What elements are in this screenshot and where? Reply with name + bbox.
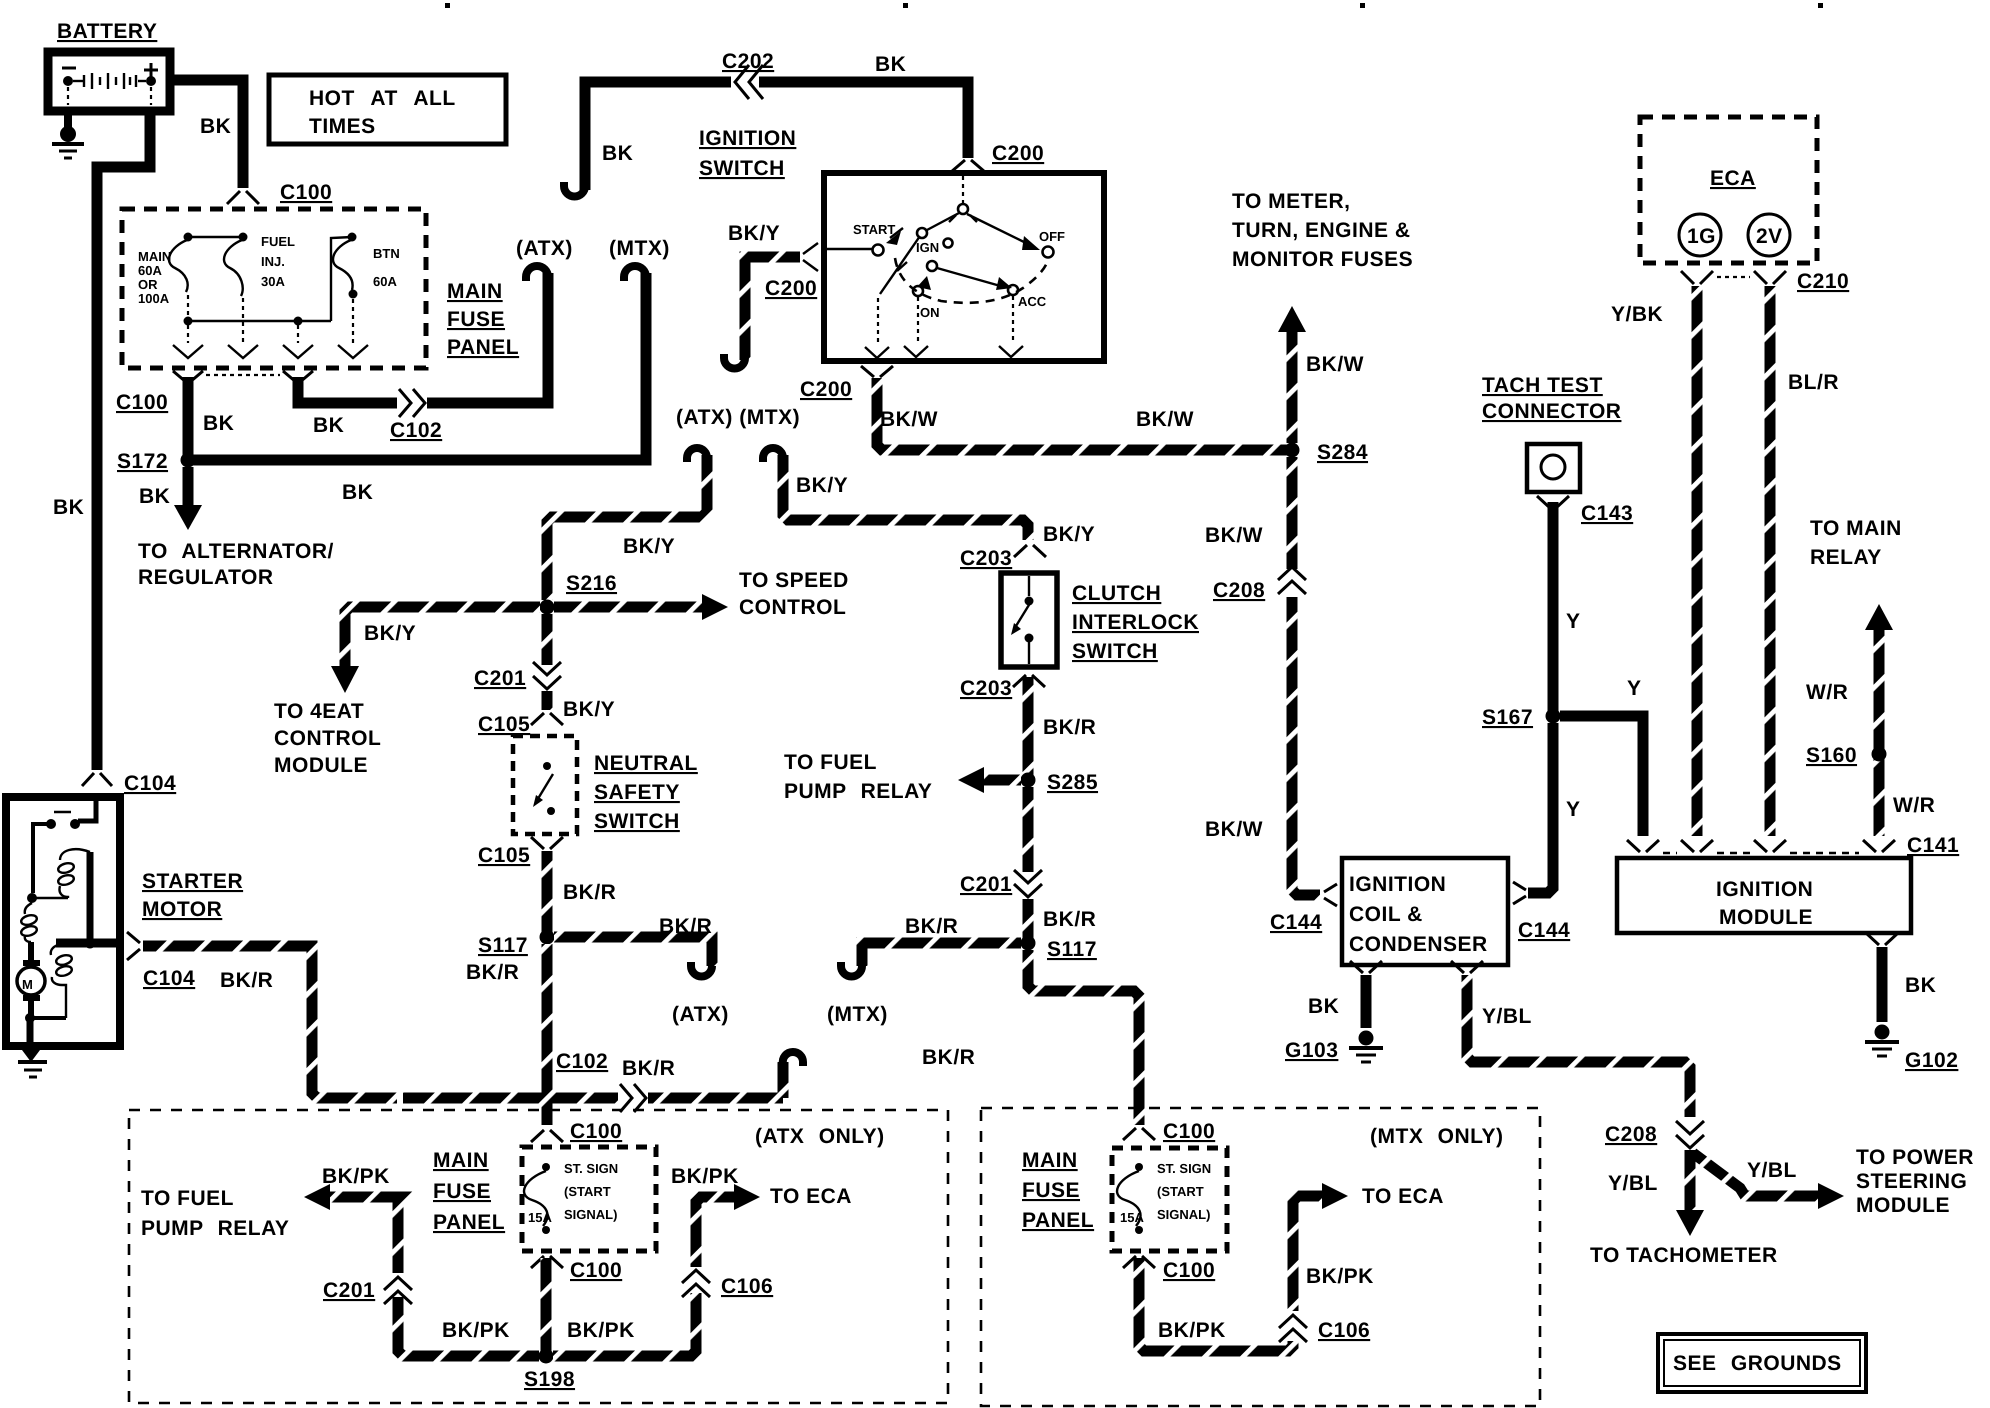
svg-text:IGN: IGN (916, 240, 939, 255)
svg-text:C102: C102 (556, 1050, 608, 1073)
label ignition coil and condenser (1349, 873, 1488, 956)
svg-text:TO ECA: TO ECA (1362, 1185, 1444, 1208)
connector C144 fork left (1324, 884, 1337, 906)
connector C144 fork right (1513, 882, 1526, 904)
connector C201 ATX (384, 1277, 412, 1304)
svg-text:BATTERY: BATTERY (57, 20, 157, 43)
svg-text:TURN, ENGINE &: TURN, ENGINE & (1232, 219, 1411, 242)
wire C201 to C105 (BK/Y) (542, 691, 553, 710)
svg-text:BK/PK: BK/PK (567, 1319, 635, 1342)
svg-text:2V: 2V (1756, 225, 1783, 248)
svg-text:(MTX): (MTX) (609, 237, 670, 260)
wire battery to C100 (BK) (168, 80, 243, 188)
svg-text:OFF: OFF (1039, 229, 1065, 244)
svg-text:Y: Y (1627, 677, 1642, 700)
svg-text:C201: C201 (323, 1279, 375, 1302)
wire C202 to ignition switch (BK) (585, 82, 968, 190)
svg-text:(START: (START (564, 1184, 611, 1199)
svg-text:TO SPEED: TO SPEED (739, 569, 849, 592)
svg-text:C100: C100 (1163, 1259, 1215, 1282)
splice S216 (540, 600, 555, 615)
svg-text:ACC: ACC (1018, 294, 1047, 309)
connector C106 MTX (1279, 1315, 1307, 1342)
starter motor box (6, 797, 120, 1046)
svg-text:C102: C102 (390, 419, 442, 442)
wire BK/W S284 down to coil (BK/W) (1292, 457, 1320, 895)
svg-text:BK/R: BK/R (466, 961, 519, 984)
wire starter to C102 (BK/R) (143, 946, 397, 1098)
dashed connector strip C100 (206, 374, 280, 376)
svg-text:Y: Y (1566, 798, 1581, 821)
svg-text:BK/W: BK/W (880, 408, 938, 431)
connector C100 fork ATX bottom (531, 1256, 563, 1268)
svg-text:(ATX ONLY): (ATX ONLY) (755, 1125, 885, 1148)
svg-text:ECA: ECA (1710, 167, 1756, 190)
svg-text:W/R: W/R (1806, 681, 1848, 704)
wire module to G102 (BK) (1877, 947, 1888, 1022)
hook wire end (724, 354, 745, 369)
svg-text:BK/W: BK/W (1205, 524, 1263, 547)
fuse FUEL INJ 30A (224, 233, 295, 344)
starter junction (27, 893, 37, 903)
svg-text:INTERLOCK: INTERLOCK (1072, 611, 1199, 634)
svg-text:C200: C200 (992, 142, 1044, 165)
splice S167 (1546, 709, 1561, 724)
label to main relay (1810, 517, 1902, 569)
fuse panel output arrows (173, 345, 368, 358)
starter solenoid coil (33, 849, 90, 898)
svg-text:C104: C104 (124, 772, 176, 795)
hook wire end (783, 1052, 803, 1066)
wire S117 to MTX stub (BK/R) (862, 943, 1021, 966)
svg-text:C201: C201 (960, 873, 1012, 896)
svg-text:SEE GROUNDS: SEE GROUNDS (1673, 1352, 1842, 1375)
svg-text:TO 4EAT: TO 4EAT (274, 700, 364, 723)
connector C201 (533, 662, 561, 689)
svg-text:BK/Y: BK/Y (364, 622, 416, 645)
wire C105 to S117 (BK/R) (542, 851, 553, 937)
svg-text:BK/Y: BK/Y (563, 698, 615, 721)
svg-text:C203: C203 (960, 677, 1012, 700)
svg-text:STEERING: STEERING (1856, 1170, 1967, 1193)
svg-text:STARTER: STARTER (142, 870, 243, 893)
svg-text:100A: 100A (138, 291, 170, 306)
label to fuel pump relay (141, 1187, 289, 1240)
label clutch interlock switch (1072, 582, 1199, 663)
label ignition module (1716, 878, 1813, 929)
wire ECA 2V to ignition module (BL/R) (1765, 286, 1776, 836)
svg-text:(ATX) (MTX): (ATX) (MTX) (676, 406, 800, 429)
wire C203 to S285 (BK/R) (1023, 677, 1034, 780)
svg-text:BK/R: BK/R (220, 969, 273, 992)
see grounds box (1658, 1334, 1866, 1392)
svg-text:IGNITION: IGNITION (699, 127, 796, 150)
svg-text:C141: C141 (1907, 834, 1959, 857)
svg-text:(MTX): (MTX) (827, 1003, 888, 1026)
svg-text:C208: C208 (1213, 579, 1265, 602)
svg-text:BK/R: BK/R (1043, 908, 1096, 931)
dashed connector strip C210 (1717, 276, 1750, 278)
svg-text:SWITCH: SWITCH (699, 157, 785, 180)
splice S117 (540, 930, 555, 945)
svg-text:BK/PK: BK/PK (671, 1165, 739, 1188)
ST SIGN fuse box ATX (522, 1147, 656, 1251)
battery B1 (48, 52, 170, 111)
splice S285 (1021, 773, 1036, 788)
connector C100 fork ATX (531, 1130, 563, 1142)
svg-text:FUSE: FUSE (433, 1180, 491, 1203)
svg-text:CONTROL: CONTROL (274, 727, 381, 750)
neutral safety switch internals (533, 762, 555, 815)
connector C105 fork (531, 713, 563, 725)
svg-text:BK: BK (139, 485, 170, 508)
wire coil to G103 (BK) (1361, 975, 1372, 1028)
svg-text:CONTROL: CONTROL (739, 596, 846, 619)
ground G103 (1349, 1031, 1383, 1063)
label neutral safety switch (594, 752, 698, 833)
svg-text:MAIN: MAIN (447, 280, 503, 303)
connector C208 (1278, 567, 1306, 594)
arrow to ECA (734, 1184, 760, 1210)
connector C104 fork (82, 773, 112, 786)
svg-text:Y/BL: Y/BL (1608, 1172, 1658, 1195)
svg-text:TO METER,: TO METER, (1232, 190, 1350, 213)
connector C106 ATX (682, 1270, 710, 1297)
fuse ST SIGN ATX (524, 1161, 618, 1234)
splice S117 (1021, 936, 1036, 951)
wire C100 to C106 to ECA MTX (BK/PK) (1139, 1196, 1322, 1351)
svg-text:NEUTRAL: NEUTRAL (594, 752, 698, 775)
svg-text:SIGNAL): SIGNAL) (564, 1207, 617, 1222)
svg-text:BK: BK (53, 496, 84, 519)
svg-text:TO ECA: TO ECA (770, 1185, 852, 1208)
svg-text:MODULE: MODULE (1719, 906, 1813, 929)
main fuse panel box C100 (122, 209, 426, 368)
fuse BTN 60A (333, 233, 400, 344)
svg-text:C203: C203 (960, 547, 1012, 570)
wire C143 to S167 (Y) (1548, 502, 1559, 716)
wire riser to ATX hook (BK/R) (778, 1062, 789, 1098)
svg-text:C100: C100 (1163, 1120, 1215, 1143)
svg-text:BK: BK (1905, 974, 1936, 997)
svg-text:C100: C100 (570, 1120, 622, 1143)
svg-text:IGNITION: IGNITION (1716, 878, 1813, 901)
hook wire end (564, 182, 585, 197)
splice S160 (1872, 747, 1887, 762)
dashed connector strip C141 (1663, 852, 1859, 854)
svg-text:BK/R: BK/R (622, 1057, 675, 1080)
svg-text:(ATX): (ATX) (516, 237, 573, 260)
svg-text:BK/PK: BK/PK (322, 1165, 390, 1188)
svg-text:C200: C200 (800, 378, 852, 401)
svg-text:IGNITION: IGNITION (1349, 873, 1446, 896)
connector C102 (399, 389, 425, 417)
svg-text:C106: C106 (1318, 1319, 1370, 1342)
svg-text:C100: C100 (116, 391, 168, 414)
wire hook to clutch switch (BK/Y) (783, 455, 1028, 540)
starter relay contacts (33, 801, 96, 893)
arrow to fuel pump relay (BK/R) (784, 751, 1021, 803)
svg-text:BL/R: BL/R (1788, 371, 1839, 394)
label tach test connector (1482, 374, 1621, 423)
svg-text:15A: 15A (1120, 1210, 1144, 1225)
wire C200 to S284 (BK/W) (877, 378, 1288, 450)
svg-text:BK: BK (875, 53, 906, 76)
svg-text:FUSE: FUSE (1022, 1179, 1080, 1202)
starter motor label (142, 870, 243, 921)
svg-text:TO TACHOMETER: TO TACHOMETER (1590, 1244, 1778, 1267)
connector C102 (620, 1084, 646, 1112)
starter ground stem (27, 1018, 34, 1050)
svg-text:CLUTCH: CLUTCH (1072, 582, 1161, 605)
connector C200 left fork (803, 243, 818, 271)
connector C208 lower (1676, 1121, 1704, 1148)
svg-text:OR: OR (138, 277, 158, 292)
wire S172 to MTX riser (BK) (188, 273, 646, 460)
wire C100 to C102 (BK) (298, 377, 397, 403)
svg-text:M: M (22, 977, 33, 992)
wire C100 to S198 (BK/PK) (541, 1258, 552, 1356)
arrow to meter fuses (BK/W) (1232, 190, 1413, 443)
arrow to tachometer (Y/BL) (1590, 1150, 1778, 1267)
wire ECA 1G to ignition module (Y/BK) (1692, 286, 1703, 836)
svg-text:SIGNAL): SIGNAL) (1157, 1207, 1210, 1222)
svg-text:BK/R: BK/R (1043, 716, 1096, 739)
svg-text:BK: BK (313, 414, 344, 437)
clutch interlock switch box (1001, 573, 1057, 667)
hot at all times box (269, 75, 506, 144)
svg-text:15A: 15A (528, 1210, 552, 1225)
wire ignition switch to C200 left (BK/Y) (745, 257, 800, 360)
connector fork below module (1866, 933, 1898, 945)
arrow to main relay (W/R) (1806, 604, 1935, 836)
ground G102 (1865, 1025, 1899, 1057)
svg-text:30A: 30A (261, 274, 285, 289)
main fuse panel label (447, 280, 519, 359)
svg-text:60A: 60A (373, 274, 397, 289)
svg-text:S216: S216 (566, 572, 617, 595)
hook wire end (691, 962, 712, 977)
svg-text:C144: C144 (1270, 911, 1322, 934)
svg-text:CONDENSER: CONDENSER (1349, 933, 1488, 956)
svg-text:W/R: W/R (1893, 794, 1935, 817)
svg-text:TIMES: TIMES (309, 115, 376, 138)
ground at battery (52, 109, 84, 158)
ignition coil box (1342, 858, 1508, 965)
wire S167 to ignition module (Y) (1560, 716, 1643, 836)
svg-text:C100: C100 (570, 1259, 622, 1282)
wire coil to C208 (Y/BL) (1467, 975, 1690, 1117)
connector C210 forks (1681, 271, 1786, 284)
svg-text:RELAY: RELAY (1810, 546, 1882, 569)
svg-text:S284: S284 (1317, 441, 1368, 464)
wire hook to S216 branch (BK/Y) (547, 455, 707, 600)
svg-text:MONITOR FUSES: MONITOR FUSES (1232, 248, 1413, 271)
ignition module box (1617, 858, 1911, 933)
starter field coil (20, 903, 38, 942)
connector C143 fork (1537, 496, 1569, 508)
splice S172 (181, 453, 196, 468)
svg-text:S160: S160 (1806, 744, 1857, 767)
wire S117 to C100 MTX (BK/R) (1028, 950, 1139, 1125)
svg-text:BK/PK: BK/PK (1158, 1319, 1226, 1342)
svg-text:(START: (START (1157, 1184, 1204, 1199)
svg-text:C105: C105 (478, 713, 530, 736)
svg-text:S117: S117 (1047, 938, 1097, 961)
wire S198 to C106 to ECA (BK/PK) (553, 1197, 734, 1356)
svg-text:ON: ON (920, 305, 940, 320)
label main fuse panel ATX (433, 1149, 505, 1234)
fuse panel internal bus wiring (184, 237, 353, 343)
wire S285 to C201 (BK/R) (1023, 787, 1034, 872)
label ignition switch (699, 127, 796, 180)
wire inside starter (87, 852, 94, 943)
svg-text:S172: S172 (117, 450, 168, 473)
svg-text:SAFETY: SAFETY (594, 781, 680, 804)
svg-text:Y/BL: Y/BL (1482, 1005, 1532, 1028)
svg-text:BK/Y: BK/Y (1043, 523, 1095, 546)
wire battery down-left to starter (BK) (97, 109, 150, 770)
svg-text:S285: S285 (1047, 771, 1098, 794)
svg-text:TO ALTERNATOR/: TO ALTERNATOR/ (138, 540, 334, 563)
svg-text:BK/PK: BK/PK (1306, 1265, 1374, 1288)
svg-text:BK: BK (1308, 995, 1339, 1018)
wire S167 to C144 (Y) (1528, 723, 1553, 893)
fuse MAIN 60A OR 100A (138, 233, 193, 319)
connector C100 fork MTX (1123, 1128, 1155, 1140)
wire S117 to ATX stub (BK/R) (554, 937, 712, 966)
svg-text:TO POWER: TO POWER (1856, 1146, 1974, 1169)
hook wire end MTX (763, 448, 783, 462)
svg-text:S167: S167 (1482, 706, 1533, 729)
wire S216 to C201 (BK/Y) (542, 614, 553, 665)
wire inside starter bus (56, 939, 124, 948)
svg-text:S198: S198 (524, 1368, 575, 1391)
connector C200 bottom fork (861, 366, 893, 377)
svg-text:SWITCH: SWITCH (1072, 640, 1158, 663)
svg-text:BK/R: BK/R (922, 1046, 975, 1069)
MTX ONLY dashed box (981, 1108, 1540, 1406)
connector C100 bottom forks (173, 371, 313, 382)
connector C104 fork right (127, 932, 140, 960)
svg-text:CONNECTOR: CONNECTOR (1482, 400, 1621, 423)
hook wire end (841, 962, 862, 977)
connector C105 fork bottom (531, 837, 563, 849)
arrow to speed control (BK/Y) (554, 569, 849, 620)
svg-text:COIL &: COIL & (1349, 903, 1423, 926)
starter motor M (17, 942, 45, 1018)
arrow to 4EAT (BK/Y) (274, 607, 540, 777)
svg-text:BK: BK (342, 481, 373, 504)
svg-text:SWITCH: SWITCH (594, 810, 680, 833)
svg-text:BK/Y: BK/Y (623, 535, 675, 558)
label main fuse panel MTX (1022, 1149, 1094, 1232)
connector C203 fork top (1014, 545, 1046, 557)
svg-text:BTN: BTN (373, 246, 400, 261)
ignition switch internals (827, 176, 1065, 358)
svg-text:MAIN: MAIN (433, 1149, 489, 1172)
svg-text:REGULATOR: REGULATOR (138, 566, 274, 589)
svg-text:BK/PK: BK/PK (442, 1319, 510, 1342)
svg-text:PANEL: PANEL (447, 336, 519, 359)
connector C201 (1014, 870, 1042, 897)
connector C203 fork bottom (1013, 675, 1045, 687)
svg-text:C104: C104 (143, 967, 195, 990)
splice S284 (1285, 443, 1300, 458)
ignition switch box (824, 173, 1104, 361)
svg-text:G102: G102 (1905, 1049, 1958, 1072)
svg-text:C105: C105 (478, 844, 530, 867)
svg-text:BK: BK (200, 115, 231, 138)
starter junction 2 (25, 1013, 35, 1023)
svg-text:BK/Y: BK/Y (728, 222, 780, 245)
ST SIGN fuse box MTX (1112, 1148, 1227, 1251)
connector C100 top fork (227, 191, 259, 204)
svg-text:C210: C210 (1797, 270, 1849, 293)
wire C102 to C100 junction (BK/R) (403, 1093, 783, 1104)
svg-text:C208: C208 (1605, 1123, 1657, 1146)
wire C201 to S117 (BK/R) (1023, 899, 1034, 943)
pin 2V (1748, 214, 1790, 256)
svg-text:MOTOR: MOTOR (142, 898, 222, 921)
scan artifact dots (445, 3, 1823, 8)
wire C100 to S172 (BK) (183, 377, 194, 456)
ground at starter (18, 1050, 47, 1077)
neutral safety switch box (513, 736, 577, 834)
svg-text:FUSE: FUSE (447, 308, 505, 331)
svg-text:BK: BK (602, 142, 633, 165)
wire C102 to ATX riser (BK) (427, 273, 548, 403)
svg-text:MAIN: MAIN (138, 249, 171, 264)
svg-text:MODULE: MODULE (1856, 1194, 1950, 1217)
svg-text:BK/R: BK/R (659, 915, 712, 938)
svg-text:INJ.: INJ. (261, 254, 285, 269)
svg-text:60A: 60A (138, 263, 162, 278)
wire S117 down to C100 (BK/R) (542, 944, 553, 1125)
svg-text:BK/Y: BK/Y (796, 474, 848, 497)
clutch interlock switch internals (1011, 576, 1034, 664)
svg-text:FUEL: FUEL (261, 234, 295, 249)
svg-text:C143: C143 (1581, 502, 1633, 525)
svg-text:C200: C200 (765, 277, 817, 300)
fuse ST SIGN MTX (1117, 1161, 1211, 1234)
svg-text:MAIN: MAIN (1022, 1149, 1078, 1172)
svg-text:PUMP RELAY: PUMP RELAY (784, 780, 932, 803)
svg-text:Y: Y (1566, 610, 1581, 633)
arrow to alternator (BK) (138, 467, 334, 589)
svg-text:MODULE: MODULE (274, 754, 368, 777)
ECA box (1640, 117, 1817, 263)
svg-text:(MTX ONLY): (MTX ONLY) (1370, 1125, 1504, 1148)
svg-text:TACH TEST: TACH TEST (1482, 374, 1603, 397)
svg-text:TO FUEL: TO FUEL (141, 1187, 234, 1210)
connector C100 fork MTX bottom (1123, 1256, 1155, 1268)
pin 1G (1679, 214, 1721, 256)
connector C200 fork top (951, 160, 985, 172)
tach test connector box (1527, 444, 1580, 492)
svg-text:BK/W: BK/W (1205, 818, 1263, 841)
svg-text:Y/BL: Y/BL (1747, 1159, 1797, 1182)
ATX ONLY dashed box (129, 1110, 948, 1403)
svg-text:BK/W: BK/W (1306, 353, 1364, 376)
svg-text:C202: C202 (722, 50, 774, 73)
svg-text:TO FUEL: TO FUEL (784, 751, 877, 774)
svg-text:C201: C201 (474, 667, 526, 690)
hook wire end (ATX) (526, 266, 548, 281)
svg-text:1G: 1G (1687, 225, 1716, 248)
svg-text:G103: G103 (1285, 1039, 1338, 1062)
svg-text:(ATX): (ATX) (672, 1003, 729, 1026)
